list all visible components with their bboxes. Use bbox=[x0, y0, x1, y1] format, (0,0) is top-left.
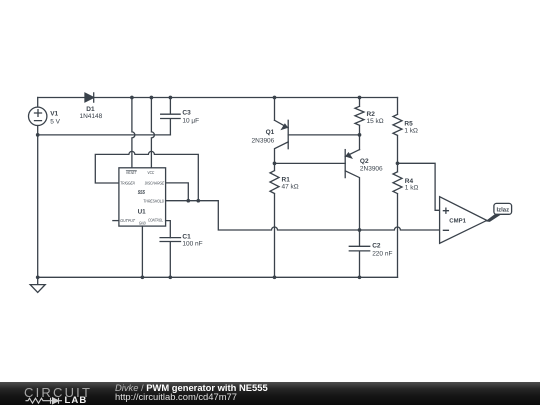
svg-text:5 V: 5 V bbox=[50, 118, 60, 125]
ground symbol bbox=[30, 277, 45, 292]
node Izlaz output flag bbox=[487, 203, 512, 221]
resistor R4 1k bbox=[393, 161, 418, 277]
node Q1 collector / Q2 base / R1 bbox=[273, 162, 346, 166]
svg-text:1N4148: 1N4148 bbox=[80, 113, 103, 120]
svg-text:CMP1: CMP1 bbox=[449, 218, 466, 225]
op-amp CMP1 comparator bbox=[440, 197, 487, 244]
svg-text:Izlaz: Izlaz bbox=[496, 206, 509, 213]
footer title text bbox=[115, 382, 268, 393]
svg-text:THRESHOLD: THRESHOLD bbox=[143, 198, 164, 203]
svg-text:10 µF: 10 µF bbox=[182, 118, 199, 125]
CircuitLab logo CIRCUIT text bbox=[24, 385, 92, 400]
wire VCC pin to rail (hops over y=135 net) bbox=[150, 96, 155, 168]
wire V1 negative lead down to ground rail bbox=[37, 126, 39, 278]
wire OUTPUT stub bbox=[113, 220, 119, 222]
svg-text:1 kΩ: 1 kΩ bbox=[405, 184, 419, 191]
svg-text:OUTPUT: OUTPUT bbox=[120, 218, 135, 223]
wire THRESHOLD node to comparator negative input bbox=[166, 199, 440, 232]
svg-text:V1: V1 bbox=[50, 110, 58, 117]
svg-text:15 kΩ: 15 kΩ bbox=[367, 118, 384, 125]
svg-text:C3: C3 bbox=[182, 110, 191, 117]
capacitor C1 100nF bbox=[160, 233, 203, 277]
node V1- / C3- net wire (y=135) bbox=[36, 133, 171, 137]
svg-text:1 kΩ: 1 kΩ bbox=[404, 127, 418, 134]
svg-text:2N3906: 2N3906 bbox=[360, 166, 383, 173]
svg-text:Q1: Q1 bbox=[266, 129, 275, 136]
svg-text:U1: U1 bbox=[138, 209, 147, 216]
svg-text:C1: C1 bbox=[182, 233, 191, 240]
svg-text:GND: GND bbox=[139, 220, 146, 225]
svg-text:555: 555 bbox=[138, 190, 146, 196]
svg-text:D1: D1 bbox=[86, 106, 95, 113]
svg-text:TRIGGER: TRIGGER bbox=[120, 181, 135, 186]
wire RESET pin to rail (hops over y=135 net) bbox=[130, 96, 135, 168]
svg-text:C2: C2 bbox=[372, 243, 381, 250]
capacitor C3 10uF bbox=[161, 96, 199, 135]
CircuitLab logo LAB text bbox=[65, 395, 88, 405]
wire top +5V rail bbox=[38, 97, 398, 99]
resistor R5 1k bbox=[393, 98, 418, 164]
wire Q1 base to R2/Q2 node bbox=[288, 134, 359, 136]
svg-text:CONTROL: CONTROL bbox=[148, 218, 163, 223]
svg-text:DISCHARGE: DISCHARGE bbox=[145, 180, 165, 185]
svg-text:100 nF: 100 nF bbox=[182, 241, 202, 248]
wire GND pin to ground rail bbox=[141, 226, 143, 277]
svg-text:Q2: Q2 bbox=[360, 158, 369, 165]
wire Q1 emitter to rail bbox=[273, 96, 277, 121]
svg-text:47 kΩ: 47 kΩ bbox=[282, 184, 299, 191]
diode D1 1N4148 bbox=[80, 93, 103, 120]
svg-text:R5: R5 bbox=[404, 120, 413, 127]
wire TRIGGER loop to THRESHOLD node (hops at x=132,151) bbox=[95, 151, 198, 200]
voltage source V1 bbox=[29, 98, 61, 126]
footer bar bbox=[0, 382, 540, 405]
svg-text:2N3906: 2N3906 bbox=[252, 138, 275, 145]
CircuitLab footer logo glyph bbox=[26, 398, 63, 404]
svg-text:VCC: VCC bbox=[147, 170, 155, 175]
wire R5/R4 node to comparator positive input bbox=[398, 163, 440, 210]
transistor Q1 2N3906 bbox=[252, 120, 289, 163]
resistor R1 47k bbox=[270, 163, 299, 277]
footer url text bbox=[115, 391, 237, 402]
wire CONTROL pin to C1 bbox=[166, 221, 171, 238]
node R2 / Q1 base / Q2 emitter bbox=[358, 133, 362, 137]
IC U1 555 timer bbox=[119, 168, 166, 226]
wire DISCHARGE to THRESHOLD node bbox=[166, 183, 189, 201]
capacitor C2 220nF bbox=[349, 230, 392, 277]
resistor R2 15k bbox=[355, 96, 384, 135]
transistor Q2 2N3906 bbox=[345, 135, 383, 230]
svg-text:220 nF: 220 nF bbox=[372, 251, 392, 258]
wire bottom ground rail bbox=[36, 275, 398, 279]
